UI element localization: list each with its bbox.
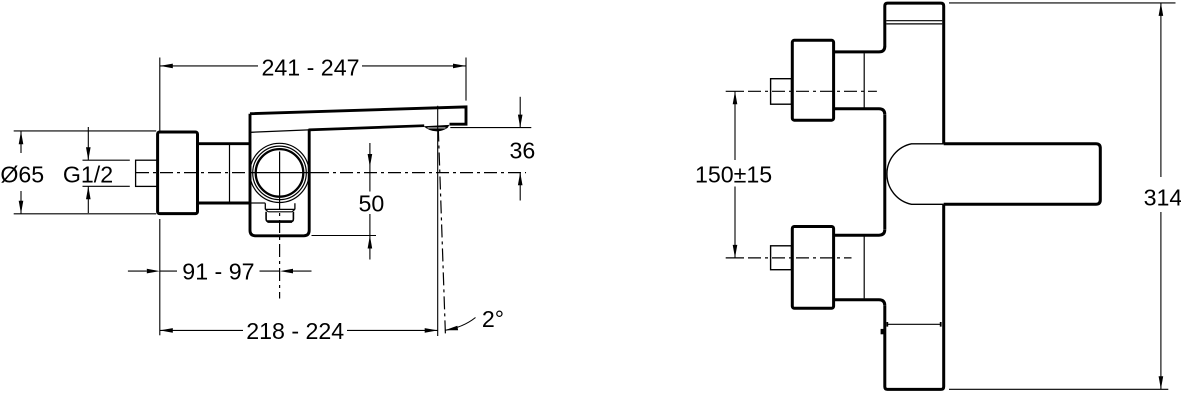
svg-text:2°: 2° <box>482 306 504 332</box>
bottom inlet centerline <box>726 257 852 259</box>
head body <box>250 114 309 236</box>
main horizontal centerline <box>136 172 526 174</box>
bottom inlet flange <box>792 227 833 309</box>
bottom seam line <box>888 323 941 325</box>
svg-text:G1/2: G1/2 <box>63 161 113 187</box>
dimension G1/2 <box>87 127 89 213</box>
wall flange <box>158 132 198 214</box>
dimension 218-224 <box>160 329 438 331</box>
vertical centerline through cartridge <box>279 152 281 299</box>
extension line wall face <box>159 58 161 336</box>
mid body section <box>198 144 266 203</box>
extension line spout underside (36) <box>450 127 531 129</box>
top inlet connector <box>834 46 885 115</box>
top inlet centerline <box>726 90 877 92</box>
top inlet flange <box>792 40 833 120</box>
svg-text:Ø65: Ø65 <box>0 162 44 188</box>
column top cap and right edge <box>885 3 944 144</box>
svg-text:314: 314 <box>1144 185 1181 211</box>
dimension 91-97 <box>128 270 312 272</box>
dimension 314 extension lines <box>949 3 1176 389</box>
dimension 50 <box>369 143 371 260</box>
top inlet stub <box>771 79 792 105</box>
svg-text:50: 50 <box>359 191 385 217</box>
water stream reference line (vertical solid) <box>437 106 439 336</box>
extension line body bottom (50) <box>312 235 377 237</box>
spout front: thin part over column <box>887 144 944 205</box>
2 degree leader <box>445 318 476 331</box>
diverter knob below head <box>265 203 295 222</box>
svg-text:36: 36 <box>510 138 536 164</box>
dimension 36 <box>519 97 521 201</box>
spout front: thick outline <box>944 144 1101 205</box>
dimension 241-247 <box>160 65 466 67</box>
column bottom with jog and right edge <box>885 204 944 389</box>
water stream 2-degree line (dash-dot) <box>438 129 445 335</box>
svg-text:91 - 97: 91 - 97 <box>182 259 254 285</box>
bottom inlet stub <box>771 246 792 270</box>
extension lines G1/2 <box>83 160 130 186</box>
column left edge mid segment <box>883 115 886 230</box>
bottom inlet connector <box>834 229 885 305</box>
dimension diameter 65 <box>20 131 22 214</box>
svg-text:218 - 224: 218 - 224 <box>246 318 344 344</box>
lever/spout blade <box>250 107 466 124</box>
aerator tip <box>424 125 450 131</box>
extension lines flange diameter <box>14 131 157 214</box>
dimension 150+-15 <box>734 91 736 258</box>
lever bottom edge thick part <box>309 126 425 130</box>
dimension 314 <box>1160 3 1162 389</box>
svg-text:150±15: 150±15 <box>695 161 772 187</box>
inlet stub G1/2 <box>136 160 158 186</box>
svg-text:241 - 247: 241 - 247 <box>262 54 360 80</box>
cartridge circles <box>250 143 309 202</box>
extension line spout tip <box>465 58 467 101</box>
cap seam double line <box>886 21 942 24</box>
lever bottom edge thin part <box>251 130 309 132</box>
